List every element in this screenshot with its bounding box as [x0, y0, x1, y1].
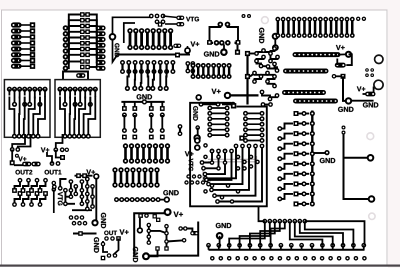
label GND (header) [259, 28, 264, 43]
jumper W1 [63, 72, 88, 80]
transistor Q3 pads [101, 236, 121, 260]
label V+ (U2) [191, 42, 200, 47]
label GND (J3) [216, 223, 231, 228]
module M1 outline [190, 103, 267, 207]
IC U5 routed block [52, 173, 100, 236]
pad chain row RC [293, 99, 338, 104]
pad chain row RB [282, 90, 326, 95]
drill hole H2 [375, 55, 383, 63]
label GND (U7) [133, 247, 138, 262]
regulator U6 [332, 54, 376, 101]
label V+ (U7) [174, 212, 183, 217]
connector J1 [275, 17, 366, 38]
pad chain row RA [283, 69, 329, 74]
label OUT1 [45, 170, 62, 175]
IC U7 routed block [134, 208, 198, 260]
via (center-left) [195, 94, 202, 101]
label V+ (center) [212, 89, 221, 94]
FPGA U9 routed area [194, 137, 264, 204]
resistor matrix RM2 [243, 111, 265, 143]
resistor matrix RM1 [207, 106, 229, 138]
net V+ rail top-right [293, 51, 353, 58]
MCU U8 routed area [199, 45, 280, 107]
pads P3 (K1 aux) [242, 14, 252, 18]
via GND (K1) [220, 48, 228, 56]
transistor Q1 pads [10, 134, 41, 166]
capacitor bank row 2 [112, 167, 159, 187]
resistor network RN1 pads [11, 22, 35, 69]
label GND (right1) [338, 107, 353, 112]
label V+ (OUT2) [18, 157, 26, 162]
drill hole H5 [369, 213, 375, 219]
label OUT [104, 231, 117, 235]
label V+ (M1) [185, 151, 194, 156]
label GND (U2) [115, 43, 120, 57]
via GND (J3) [216, 232, 224, 248]
capacitor C5 [185, 61, 195, 73]
label V+ (top right) [336, 45, 345, 50]
drill hole H4 [367, 133, 374, 140]
via GND (center-left) [193, 125, 200, 141]
square pad P1 [239, 136, 244, 141]
relay K1 footprint [207, 22, 241, 50]
label VTG [186, 17, 199, 22]
label GND (bus) [137, 94, 152, 99]
label GND (OUT) [94, 237, 99, 252]
label GND (K1) [204, 51, 219, 56]
label GND (center-left) [193, 106, 198, 121]
IC U2 footprint [109, 14, 191, 62]
IC U3 footprint [4, 80, 50, 139]
resistor column RK [277, 111, 315, 207]
label GND (right2) [363, 102, 378, 107]
label VTG (M1) [189, 159, 193, 172]
label V+ (U5) [86, 170, 95, 175]
label V+ (OUT1) [41, 147, 49, 152]
label V+ (U6) [357, 86, 365, 91]
capacitor bank row 1 [123, 143, 170, 163]
via GND (header) [272, 33, 279, 51]
pad chain SIP1 [114, 196, 170, 202]
transistor Q2 pads [47, 134, 69, 166]
wire fan U2 to GND bus [120, 60, 175, 91]
diode row D13-D20 [191, 63, 232, 79]
capacitor C6 [178, 124, 183, 136]
connector J3 fan [206, 206, 367, 260]
via GND right [345, 97, 374, 104]
GND bus with caps [121, 99, 164, 139]
label V+ (OUT) [120, 229, 129, 234]
capacitor C7 [52, 181, 57, 213]
IC U1 footprint [63, 12, 106, 71]
drill hole H3 [374, 80, 383, 89]
IC U4 footprint [55, 80, 100, 139]
pads P2 (M1 left) [184, 174, 205, 184]
label GND (SIP1) [163, 190, 178, 195]
net GND long trace [342, 126, 376, 203]
diode matrix D1-D12 [12, 178, 48, 207]
label OUT2 [15, 170, 32, 175]
label VTG (left) [58, 192, 63, 206]
drill hole H1 [262, 17, 269, 24]
label GND (ladder) [314, 150, 330, 155]
label GND (U5) [101, 213, 106, 228]
